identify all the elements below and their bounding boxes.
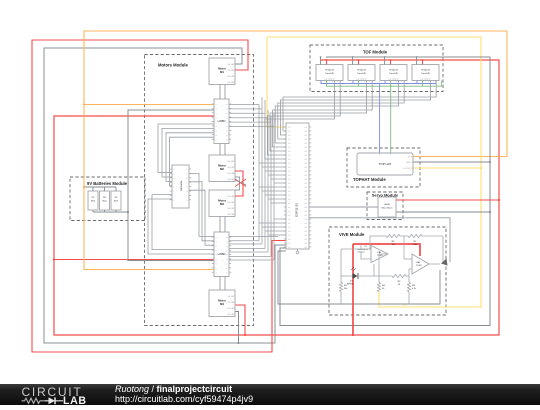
svg-text:Batt: Batt (91, 200, 95, 203)
svg-text:M2: M2 (220, 167, 224, 171)
svg-text:VL53L0X: VL53L0X (325, 70, 335, 72)
svg-text:Mtr 1A: Mtr 1A (228, 213, 235, 216)
svg-text:a: a (174, 191, 175, 193)
svg-text:sda scl gp xs: sda scl gp xs (420, 79, 430, 81)
svg-text:io2: io2 (288, 243, 291, 245)
svg-text:in: in (216, 237, 217, 239)
svg-text:M1: M1 (220, 70, 224, 74)
svg-text:io4: io4 (304, 171, 307, 173)
svg-text:io4: io4 (304, 179, 307, 181)
svg-text:io2: io2 (288, 183, 291, 185)
svg-text:MDRIVER: MDRIVER (180, 181, 182, 192)
svg-text:io4: io4 (304, 143, 307, 145)
svg-text:L298N: L298N (218, 119, 226, 123)
svg-text:io2: io2 (288, 235, 291, 237)
svg-text:b: b (187, 182, 188, 184)
svg-text:Mtr 1A: Mtr 1A (228, 166, 235, 169)
svg-text:Batt: Batt (114, 200, 118, 203)
svg-text:io2: io2 (288, 195, 291, 197)
svg-text:9V Batteries Module: 9V Batteries Module (87, 181, 128, 186)
svg-text:io4: io4 (304, 219, 307, 221)
svg-text:LAB: LAB (63, 395, 87, 405)
svg-text:io4: io4 (304, 155, 307, 157)
svg-text:in: in (216, 109, 217, 111)
svg-text:io2: io2 (288, 159, 291, 161)
svg-text:BPW34: BPW34 (347, 284, 355, 286)
svg-text:io4: io4 (304, 247, 307, 249)
svg-text:in: in (216, 135, 217, 137)
svg-text:io2: io2 (288, 231, 291, 233)
svg-text:1M: 1M (391, 244, 394, 246)
svg-text:a: a (174, 182, 175, 184)
svg-text:VL53L0X: VL53L0X (421, 70, 431, 72)
svg-text:Mtr 1A: Mtr 1A (228, 172, 235, 175)
svg-text:in: in (216, 259, 217, 261)
svg-text:io2: io2 (288, 211, 291, 213)
svg-text:TOPHAT Module: TOPHAT Module (353, 177, 386, 182)
svg-text:TimeOfF: TimeOfF (389, 73, 398, 75)
svg-text:io4: io4 (304, 147, 307, 149)
svg-text:4.7k: 4.7k (412, 288, 416, 290)
svg-text:Lvl 3.3V: Lvl 3.3V (403, 168, 411, 170)
svg-text:b: b (187, 169, 188, 171)
svg-text:io4: io4 (304, 211, 307, 213)
svg-text:io4: io4 (304, 239, 307, 241)
svg-text:a: a (174, 200, 175, 202)
svg-text:Mtr 1A: Mtr 1A (228, 178, 235, 181)
svg-text:io4: io4 (304, 187, 307, 189)
svg-text:io2: io2 (288, 127, 291, 129)
svg-text:Mtr 1A: Mtr 1A (228, 69, 235, 72)
svg-text:io4: io4 (304, 191, 307, 193)
svg-text:in: in (216, 264, 217, 266)
svg-text:b: b (187, 191, 188, 193)
svg-text:io2: io2 (288, 175, 291, 177)
svg-text:TOF Module: TOF Module (363, 50, 388, 55)
svg-text:in: in (216, 242, 217, 244)
svg-text:io2: io2 (288, 143, 291, 145)
svg-text:Mtr 1A: Mtr 1A (228, 81, 235, 84)
svg-text:TimeOfF: TimeOfF (421, 73, 430, 75)
svg-text:in: in (216, 113, 217, 115)
svg-text:VIVE Module: VIVE Module (339, 232, 365, 237)
svg-text:io2: io2 (288, 239, 291, 241)
svg-text:Mtr 1A: Mtr 1A (228, 201, 235, 204)
svg-text:io4: io4 (304, 127, 307, 129)
svg-text:Mtr 1A: Mtr 1A (228, 301, 235, 304)
svg-text:io4: io4 (304, 231, 307, 233)
svg-text:io2: io2 (288, 131, 291, 133)
svg-text:sda scl gp xs: sda scl gp xs (356, 79, 366, 81)
svg-text:b: b (187, 196, 188, 198)
svg-text:in: in (216, 104, 217, 106)
svg-text:io2: io2 (288, 199, 291, 201)
svg-text:Mtr 1A: Mtr 1A (228, 75, 235, 78)
svg-text:TL081: TL081 (416, 265, 423, 267)
svg-text:TL081: TL081 (377, 255, 384, 257)
svg-text:io2: io2 (288, 151, 291, 153)
svg-text:io4: io4 (304, 203, 307, 205)
svg-text:io2: io2 (288, 207, 291, 209)
svg-text:io4: io4 (304, 163, 307, 165)
svg-text:in: in (216, 131, 217, 133)
svg-text:io2: io2 (288, 227, 291, 229)
svg-text:Mtr 1A: Mtr 1A (228, 63, 235, 66)
svg-text:b: b (187, 174, 188, 176)
svg-text:io4: io4 (304, 139, 307, 141)
svg-text:Mtr 1A: Mtr 1A (228, 295, 235, 298)
svg-text:sda scl gp xs: sda scl gp xs (324, 79, 334, 81)
svg-text:TOP HAT: TOP HAT (379, 162, 392, 166)
svg-text:VL53L0X: VL53L0X (389, 70, 399, 72)
svg-text:in: in (216, 250, 217, 252)
svg-text:in: in (216, 246, 217, 248)
svg-text:in: in (216, 139, 217, 141)
svg-text:io2: io2 (288, 155, 291, 157)
svg-text:50k: 50k (344, 288, 347, 290)
svg-text:b: b (187, 200, 188, 202)
svg-text:sda scl gp xs: sda scl gp xs (388, 79, 398, 81)
svg-text:VL53L0X: VL53L0X (357, 70, 367, 72)
svg-text:io4: io4 (304, 167, 307, 169)
svg-text:in: in (216, 268, 217, 270)
svg-text:io4: io4 (304, 207, 307, 209)
svg-text:in: in (216, 255, 217, 257)
svg-text:a: a (174, 178, 175, 180)
svg-text:io2: io2 (288, 219, 291, 221)
svg-text:a: a (174, 187, 175, 189)
svg-text:io4: io4 (304, 235, 307, 237)
svg-text:b: b (187, 178, 188, 180)
svg-text:io2: io2 (288, 191, 291, 193)
svg-text:Mtr 1A: Mtr 1A (228, 307, 235, 310)
svg-text:io4: io4 (304, 131, 307, 133)
svg-text:Micro Servo: Micro Servo (382, 208, 394, 210)
svg-text:TimeOfF: TimeOfF (357, 73, 366, 75)
svg-text:io2: io2 (288, 147, 291, 149)
svg-text:Batt: Batt (103, 200, 107, 203)
svg-text:M3: M3 (220, 202, 224, 206)
svg-text:a: a (174, 196, 175, 198)
svg-text:in: in (216, 272, 217, 274)
svg-text:io2: io2 (288, 215, 291, 217)
svg-text:io2: io2 (288, 139, 291, 141)
svg-text:io4: io4 (304, 215, 307, 217)
svg-text:io2: io2 (288, 167, 291, 169)
svg-text:io2: io2 (288, 171, 291, 173)
svg-text:io4: io4 (304, 243, 307, 245)
svg-text:in: in (216, 126, 217, 128)
svg-text:0.5V: 0.5V (402, 305, 407, 307)
svg-text:SG90: SG90 (384, 204, 390, 206)
svg-text:io2: io2 (288, 163, 291, 165)
svg-text:Mtr 1A: Mtr 1A (228, 195, 235, 198)
svg-text:io4: io4 (304, 195, 307, 197)
svg-text:Motors Module: Motors Module (158, 63, 188, 68)
svg-text:in: in (216, 122, 217, 124)
svg-text:io4: io4 (304, 151, 307, 153)
svg-text:io4: io4 (304, 227, 307, 229)
svg-text:in: in (216, 117, 217, 119)
svg-text:io2: io2 (288, 203, 291, 205)
svg-text:ESP32 S2: ESP32 S2 (295, 203, 299, 217)
svg-text:io2: io2 (288, 179, 291, 181)
svg-text:io4: io4 (304, 175, 307, 177)
svg-text:io2: io2 (288, 135, 291, 137)
svg-text:GND: GND (406, 162, 411, 164)
svg-text:Mtr 1A: Mtr 1A (228, 207, 235, 210)
svg-text:OA1: OA1 (377, 251, 382, 254)
svg-text:Mtr 1A: Mtr 1A (228, 160, 235, 163)
svg-text:M4: M4 (220, 302, 224, 306)
svg-text:Mtr 1A: Mtr 1A (228, 313, 235, 316)
svg-text:io4: io4 (304, 223, 307, 225)
svg-text:a: a (174, 174, 175, 176)
svg-text:io2: io2 (288, 247, 291, 249)
svg-text:OA2: OA2 (416, 261, 421, 264)
svg-text:io2: io2 (288, 187, 291, 189)
svg-text:io4: io4 (304, 183, 307, 185)
svg-text:io2: io2 (288, 223, 291, 225)
svg-text:io4: io4 (304, 159, 307, 161)
svg-text:io4: io4 (304, 199, 307, 201)
svg-text:io4: io4 (304, 135, 307, 137)
svg-text:TimeOfF: TimeOfF (325, 73, 334, 75)
svg-text:b: b (187, 187, 188, 189)
svg-text:L298N: L298N (218, 252, 226, 256)
svg-text:a: a (174, 169, 175, 171)
